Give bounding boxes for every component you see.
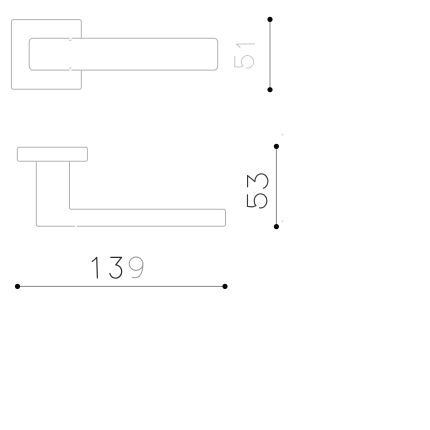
dimension 51: end dot top [267, 17, 272, 22]
side view: rose plate (edge-on) [17, 147, 87, 161]
digit 5 of 51 [235, 56, 254, 68]
stray speck upper (near 53 line) [282, 134, 284, 136]
digit 3 of 53 [248, 174, 268, 188]
digit 1 of 139 [92, 257, 97, 278]
dimension 51: end dot bottom [267, 87, 272, 92]
stray speck lower (near 53 line) [282, 220, 284, 222]
dimension 53: end dot top [274, 144, 279, 149]
digit 9 of 139: tail [132, 264, 143, 278]
side view: neck and lever profile [36, 161, 225, 226]
dimension text 139 [92, 257, 143, 278]
front view: seam dash below top edge [69, 39, 71, 41]
digit 1 of 51 [236, 44, 254, 48]
front view: lever bar [29, 38, 218, 70]
front view: seam dash above bottom edge [69, 67, 71, 69]
dimension 139: end dot right [222, 284, 227, 289]
front view: seam gap on lever top edge [70, 37, 72, 39]
digit 9 of 139: bowl [129, 257, 143, 270]
dimension line 139 (horizontal, below side view) [18, 285, 226, 287]
dimension text 53 (rotated, dark gray) [247, 174, 267, 208]
dimension line 51 (vertical, right of front view) [269, 19, 271, 89]
front view: seam gap on lever bottom edge [70, 69, 72, 71]
dimension 53: end dot bottom [274, 224, 279, 229]
dimension text 51 (rotated, light gray) [235, 44, 255, 68]
dimension line 53 (vertical, right of side view) [275, 146, 277, 226]
front view: square rose plate [11, 20, 81, 90]
digit 3 of 139 [110, 257, 122, 278]
dimension 139: end dot left [15, 284, 20, 289]
digit 5 of 53 [247, 194, 266, 208]
